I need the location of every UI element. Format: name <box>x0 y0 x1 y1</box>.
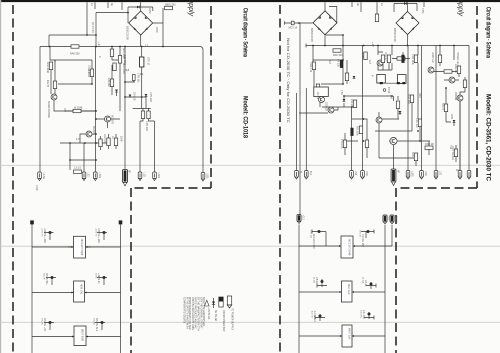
faint fold line 1 <box>0 164 500 166</box>
transistor T8r <box>390 137 397 144</box>
svg-text:≠ IN HA UA: ≠ IN HA UA <box>207 308 210 320</box>
wire bus row3 rb <box>299 335 385 337</box>
wire 680 drop <box>162 8 164 23</box>
svg-text:7,5V: 7,5V <box>340 90 343 95</box>
regulator block IC1r <box>314 87 329 97</box>
svg-text:1,5 LS: 1,5 LS <box>74 167 81 170</box>
svg-text:MA7 1uF: MA7 1uF <box>347 284 351 295</box>
svg-text:RAK 500: RAK 500 <box>70 53 80 56</box>
svg-text:ΔCX 100u: ΔCX 100u <box>122 63 125 74</box>
plug Y3 <box>350 171 354 180</box>
faint fold line 3 <box>0 321 500 323</box>
wire right rail rb <box>384 225 386 353</box>
wire bus row1 rb <box>299 245 392 247</box>
capacitor CR1 <box>318 230 321 233</box>
diode D1 inline top <box>137 6 140 9</box>
wire short rail rb <box>391 225 393 246</box>
wire <box>392 46 397 71</box>
svg-text:680Ω 250: 680Ω 250 <box>165 4 176 7</box>
capacitor CL6 <box>101 321 104 324</box>
svg-text:LS2: LS2 <box>354 171 356 176</box>
svg-text:BL2: BL2 <box>309 171 311 176</box>
stub comp right <box>375 14 378 22</box>
capacitor CR6 <box>368 313 371 316</box>
right loop drop to plug <box>202 50 204 173</box>
wire cap stub row2 rb <box>317 279 327 288</box>
wire <box>127 7 129 23</box>
svg-text:MC1307 5008: MC1307 5008 <box>80 239 84 256</box>
junction dots right rail <box>298 22 455 142</box>
IC block V2 <box>342 281 353 302</box>
svg-text:BY THE MANUFACTURER OTH: BY THE MANUFACTURER OTH <box>197 297 200 331</box>
resistor R4r <box>381 55 384 63</box>
resistor R13r <box>414 153 417 161</box>
faint fold line 2 <box>0 245 500 247</box>
svg-text:25V 110: 25V 110 <box>310 230 312 239</box>
wire left rail rb <box>298 225 300 353</box>
svg-text:LA NE: LA NE <box>42 173 45 180</box>
svg-text:70u 0C: 70u 0C <box>41 318 43 325</box>
right loop drop <box>468 46 470 171</box>
wire cap stub row1 rb <box>312 230 326 247</box>
wire <box>403 46 418 120</box>
resistor R5 <box>110 79 113 87</box>
wire <box>398 95 420 141</box>
svg-text:2N3: 2N3 <box>390 95 392 100</box>
svg-text:OPM: OPM <box>155 27 158 32</box>
wire left rail <box>31 225 33 353</box>
svg-text:6B07 60/8: 6B07 60/8 <box>81 329 85 341</box>
wire y119 left <box>379 112 399 131</box>
plug Y1 <box>295 171 299 180</box>
resistor R120 <box>118 56 121 64</box>
svg-text:LS3: LS3 <box>87 173 89 178</box>
wire cap stub row2b rb <box>366 282 376 289</box>
capacitor C5r <box>343 140 346 148</box>
plug Y4 <box>361 171 365 180</box>
top stubs right <box>352 2 424 14</box>
main rail right <box>306 45 469 47</box>
resistor R12r <box>418 119 421 127</box>
legend diode symbol <box>212 298 215 308</box>
capacitor C1r <box>345 73 348 81</box>
regulator cluster wires left <box>125 47 151 112</box>
resistor 680 top <box>165 6 173 9</box>
svg-text:STR 17: STR 17 <box>147 57 150 66</box>
resistor R9 <box>114 138 117 146</box>
wire plug cols right <box>408 46 460 171</box>
main rail +17V <box>40 47 203 51</box>
dark plug Z2 <box>383 215 387 224</box>
wire y113 row <box>299 112 328 114</box>
svg-text:CO2 100u: CO2 100u <box>411 54 414 66</box>
wire transistor q3 <box>96 119 120 128</box>
svg-text:Δ17: Δ17 <box>328 60 331 65</box>
resistor R7r <box>414 55 417 63</box>
svg-text:1k 05: 1k 05 <box>361 52 364 59</box>
wire y141 <box>345 46 363 171</box>
dashed border right page <box>280 5 477 353</box>
svg-text:3,8: 3,8 <box>126 68 130 72</box>
svg-text:LS3: LS3 <box>439 171 441 176</box>
cap label extra lines <box>41 228 365 326</box>
resistor CPO1 <box>141 111 144 119</box>
svg-text:CPU 1uF: CPU 1uF <box>415 118 418 128</box>
wire t5 <box>334 107 338 110</box>
wire transistor t1r leg <box>314 70 320 107</box>
wire comp column right <box>112 47 120 97</box>
svg-text:LS01: LS01 <box>411 171 414 177</box>
inline bead MCX <box>291 21 294 25</box>
svg-text:1N4148: 1N4148 <box>350 99 353 108</box>
wire bridge bottom drop <box>140 35 142 47</box>
diode DRT <box>454 149 457 157</box>
svg-text:MC 78: MC 78 <box>316 92 319 100</box>
svg-text:Δ17: Δ17 <box>368 60 371 65</box>
pin arrows V blocks <box>339 245 355 337</box>
svg-text:14 W: 14 W <box>35 185 37 191</box>
capacitor C3r <box>359 126 362 134</box>
wire mo col <box>345 128 367 158</box>
capacitor CL1 <box>49 231 52 234</box>
IC block U2 <box>74 281 85 302</box>
diode D1r <box>353 76 356 79</box>
IC block V1 <box>341 236 353 258</box>
svg-text:+17: +17 <box>371 42 375 47</box>
wire y111 <box>65 110 96 112</box>
transistor T5r <box>328 107 334 113</box>
plug Y6 <box>406 171 410 180</box>
resistor R2r <box>316 84 319 92</box>
extra tiny labels texture <box>35 48 458 223</box>
dark plug Z1 <box>297 215 301 224</box>
wire bridge1 top <box>325 2 343 35</box>
wire AC feed top <box>128 6 153 8</box>
diode D2 <box>115 90 118 93</box>
wire <box>343 35 347 84</box>
svg-text:1k CA: 1k CA <box>362 277 365 283</box>
wire <box>48 35 50 47</box>
capacitor CL3 <box>51 276 54 279</box>
svg-text:2SA561: 2SA561 <box>454 92 457 101</box>
IC block V3 <box>342 325 352 347</box>
wire ic pins row1 <box>68 246 91 248</box>
IC block U3 <box>74 326 86 346</box>
svg-text:64 7k: 64 7k <box>95 273 97 279</box>
wire ic block top <box>297 88 307 171</box>
resistor R3r dark <box>340 60 343 68</box>
svg-text:135 680: 135 680 <box>107 78 110 87</box>
plug X3 <box>94 172 98 181</box>
svg-text:1k CB: 1k CB <box>313 277 315 283</box>
wire right cluster <box>434 66 459 77</box>
svg-text:M58 (7k): M58 (7k) <box>80 284 84 294</box>
capacitor MO dark <box>351 128 354 136</box>
capacitor C2r <box>353 100 356 108</box>
wire <box>393 4 395 13</box>
resistor R8 <box>107 138 110 146</box>
resistor hr2r <box>397 57 405 60</box>
svg-text:+17: +17 <box>97 42 101 47</box>
svg-text:MCX 1δ: MCX 1δ <box>289 27 298 30</box>
wire y141b <box>389 96 430 169</box>
diode D2r <box>343 99 346 102</box>
plug X5 <box>138 172 142 181</box>
dark plug Z3 <box>390 215 394 224</box>
plug X1 <box>38 172 42 181</box>
wire q4 <box>80 134 96 143</box>
svg-text:25V 40: 25V 40 <box>359 230 361 238</box>
svg-text:BC237B: BC237B <box>92 126 95 135</box>
plug X6 <box>153 172 157 181</box>
plug Y5 <box>391 169 396 186</box>
small circle pin <box>383 89 386 92</box>
svg-text:Not for CD-2030 TC · Only for: Not for CD-2030 TC · Only for CD-2030 TC <box>286 38 290 124</box>
svg-text:OPM: OPM <box>148 8 151 13</box>
wire <box>444 77 465 171</box>
diode OPN <box>453 120 456 123</box>
capacitor C6r <box>457 66 460 74</box>
svg-text:70u BL: 70u BL <box>93 318 95 326</box>
svg-text:Circuit diagram · Schéma: Circuit diagram · Schéma <box>485 7 492 58</box>
svg-text:MC1307 5048: MC1307 5048 <box>348 239 352 256</box>
relay block A <box>377 75 386 84</box>
top edge stubs <box>87 2 141 35</box>
svg-text:LUMP 1uF: LUMP 1uF <box>431 52 433 64</box>
legend half-filled plug <box>219 297 223 307</box>
wire mains left drop <box>95 13 97 47</box>
bridge rectifier GL3 <box>396 11 419 34</box>
pin blob a <box>380 82 383 84</box>
bridge rectifier GL2 <box>313 11 337 35</box>
transistor T3 <box>86 131 92 137</box>
resistor hr1r <box>333 49 341 52</box>
svg-text:NTC 5: NTC 5 <box>441 103 444 111</box>
wire bridge1 bottom drop <box>324 36 326 46</box>
svg-text:1548: 1548 <box>120 136 123 142</box>
capacitor C5 <box>74 170 82 173</box>
wire left rail drop <box>299 23 301 215</box>
svg-text:Circuit diagram · Schéma: Circuit diagram · Schéma <box>242 8 249 57</box>
svg-text:W 1548: W 1548 <box>74 107 83 110</box>
left edge scan strip <box>0 0 1 353</box>
wire bus row2 <box>32 292 121 294</box>
transistor T2 <box>105 116 111 122</box>
pin blob c <box>402 82 405 84</box>
resistor hr4r <box>425 146 433 149</box>
svg-text:BD263 2SD526: BD263 2SD526 <box>47 101 50 118</box>
plug Y7 <box>420 171 424 180</box>
svg-text:3,1: 3,1 <box>140 72 144 76</box>
svg-text:LS01: LS01 <box>98 173 101 179</box>
wire bridge right to branch <box>153 23 163 47</box>
wire transistor leg <box>51 60 92 100</box>
wire bridge2 top drop <box>407 2 409 11</box>
transistor T3r <box>428 67 434 73</box>
top black bar <box>1 0 500 2</box>
capacitor CL4 <box>103 276 106 279</box>
capacitor CR3 <box>321 280 324 283</box>
wire bus row2 rb <box>299 291 385 293</box>
transistor T2r <box>377 60 383 66</box>
svg-text:FROM POWER SUP: FROM POWER SUP <box>222 310 224 332</box>
wire cap stub row3b rb <box>364 312 374 320</box>
resistor R10r <box>396 101 399 109</box>
wire t6 drop <box>460 92 465 95</box>
svg-text:C5 100: C5 100 <box>337 59 340 67</box>
svg-text:50u 7k: 50u 7k <box>43 273 45 280</box>
svg-text:Power supply: Power supply <box>457 0 464 17</box>
resistor R5r <box>387 55 390 63</box>
wire branch y60 right <box>313 46 343 63</box>
transistor T6r <box>457 95 463 101</box>
plug Y8 <box>434 171 438 180</box>
wire y131 <box>375 109 412 132</box>
square pad P1 <box>30 220 34 224</box>
svg-text:40u 80: 40u 80 <box>46 80 48 88</box>
IC block U1 <box>74 236 86 258</box>
resistor R1 <box>49 62 52 70</box>
legend warning triangle <box>205 300 210 306</box>
svg-text:BC237B: BC237B <box>111 115 114 124</box>
wire y107 <box>322 107 352 171</box>
svg-text:ONLY BE REPLACED BY ORIG: ONLY BE REPLACED BY ORIG <box>191 297 194 330</box>
svg-text:MO 100u: MO 100u <box>356 126 359 137</box>
capacitor C4 <box>113 63 116 71</box>
svg-text:+16V 70: +16V 70 <box>41 228 43 237</box>
svg-text:LS01: LS01 <box>424 171 426 177</box>
resistor R9r <box>463 80 466 88</box>
wire mid verticals <box>96 47 126 173</box>
svg-text:2SD526: 2SD526 <box>325 102 328 111</box>
svg-text:6B07 1uF: 6B07 1uF <box>348 328 352 340</box>
diode D5 inline top <box>404 2 407 5</box>
wire y96 <box>344 96 392 107</box>
svg-text:CPM: CPM <box>421 8 424 13</box>
svg-text:DNR 2R: DNR 2R <box>425 143 434 146</box>
wire y119 <box>352 119 367 140</box>
wire emitter row <box>54 100 96 111</box>
capacitor CR5 <box>319 315 322 318</box>
resistor 1k05 <box>364 52 367 60</box>
wire cap stubs row1 <box>44 233 107 241</box>
wire y160 row <box>70 143 96 160</box>
wire right rail <box>120 225 122 353</box>
NTC R14r <box>444 104 447 112</box>
svg-text:ΔDX 1000: ΔDX 1000 <box>122 48 125 59</box>
svg-text:Power supply: Power supply <box>187 0 194 17</box>
capacitor CR4 <box>370 283 373 286</box>
wire mains left tap <box>285 21 313 24</box>
pin arrows U1 <box>72 246 89 338</box>
svg-text:Modell: CD-1018: Modell: CD-1018 <box>242 96 249 138</box>
transistor T1r <box>319 97 325 103</box>
regulator STR <box>140 57 144 67</box>
svg-text:B250C1500: B250C1500 <box>310 28 314 42</box>
wire cap stubs row3 <box>44 323 105 331</box>
svg-text:TUNER 1uF 5: TUNER 1uF 5 <box>456 52 458 67</box>
wire bus row3 <box>32 336 121 338</box>
wire y84 <box>321 81 347 84</box>
wire relay row <box>377 82 406 84</box>
svg-text:LS2: LS2 <box>143 173 146 178</box>
capacitor CL2 <box>103 231 106 234</box>
wire bridge2 bottom drop <box>407 35 409 46</box>
svg-text:Modell: CD-3561, CD-2030 TC: Modell: CD-3561, CD-2030 TC <box>485 94 492 181</box>
svg-text:IN THE SAFETY SHADOW SH: IN THE SAFETY SHADOW SH <box>185 297 188 329</box>
svg-text:OPN: OPN <box>450 114 453 119</box>
svg-text:WHEN NECESSARY FOR SER: WHEN NECESSARY FOR SER <box>188 297 191 330</box>
wire y143 row <box>60 142 110 144</box>
wire cap stub row1b rb <box>361 230 374 239</box>
svg-text:LS01: LS01 <box>157 173 160 179</box>
svg-text:HO3 4.7k: HO3 4.7k <box>309 62 312 73</box>
svg-text:NPR: NPR <box>411 152 414 157</box>
wire cap stubs row2 <box>46 278 107 286</box>
wire <box>440 46 454 67</box>
resistor CPO2 <box>147 111 150 119</box>
relay block B <box>398 75 407 84</box>
diode D3r <box>399 111 402 114</box>
capacitor CR2 <box>367 230 370 233</box>
capacitor C2 <box>90 69 93 77</box>
wire <box>152 7 154 11</box>
fuse SI1 on rail <box>71 45 79 48</box>
svg-text:LS01: LS01 <box>206 173 209 179</box>
svg-text:CPO 100: CPO 100 <box>145 121 148 132</box>
legend text block <box>183 297 206 331</box>
svg-text:AD3 100Ω: AD3 100Ω <box>46 62 49 73</box>
resistor R2 <box>53 81 56 89</box>
svg-text:TS4: TS4 <box>449 145 451 150</box>
svg-text:C5 1000: C5 1000 <box>88 65 90 74</box>
svg-text:+16V 70: +16V 70 <box>95 228 97 237</box>
svg-text:SAFETY BE GUARANTEED.: SAFETY BE GUARANTEED. <box>202 297 205 327</box>
dot regulator <box>124 46 143 98</box>
svg-text:C15: C15 <box>388 216 390 221</box>
svg-text:TO POWER SUPPLY: TO POWER SUPPLY <box>231 308 233 330</box>
wire ntc col <box>446 88 456 162</box>
resistor R4 <box>110 49 113 57</box>
plug Y2 <box>305 171 309 180</box>
wire branch y60 <box>50 47 92 61</box>
svg-text:RAK 500: RAK 500 <box>333 54 343 57</box>
transistor T1 <box>51 94 57 100</box>
svg-text:B250C1500: B250C1500 <box>393 28 397 42</box>
wire 6V tap <box>49 34 96 36</box>
capacitor CL5 <box>49 321 52 324</box>
dashed border left page <box>13 5 211 353</box>
resistor R6r dark <box>402 55 405 63</box>
pin blob b <box>397 82 400 84</box>
wire y158 <box>379 131 429 166</box>
svg-text:PNB: PNB <box>418 93 420 98</box>
plug Y10 <box>467 171 471 180</box>
svg-text:PNR PNT: PNR PNT <box>407 94 410 105</box>
resistor hr3r <box>444 70 452 73</box>
svg-text:2SH101: 2SH101 <box>133 92 136 101</box>
svg-text:B250C1500: B250C1500 <box>126 26 130 40</box>
svg-text:CD2 100: CD2 100 <box>103 134 105 144</box>
bridge rectifier GL1 <box>129 11 153 35</box>
svg-text:CPU 4,7: CPU 4,7 <box>384 52 386 61</box>
left rail drop to plug <box>39 47 41 173</box>
wire AC feed top right <box>394 3 417 5</box>
wire top rail to bridge <box>96 12 128 14</box>
wire cap stub row3 rb <box>315 314 325 321</box>
wire small col drops <box>101 134 117 150</box>
resistor R6 <box>73 109 81 112</box>
